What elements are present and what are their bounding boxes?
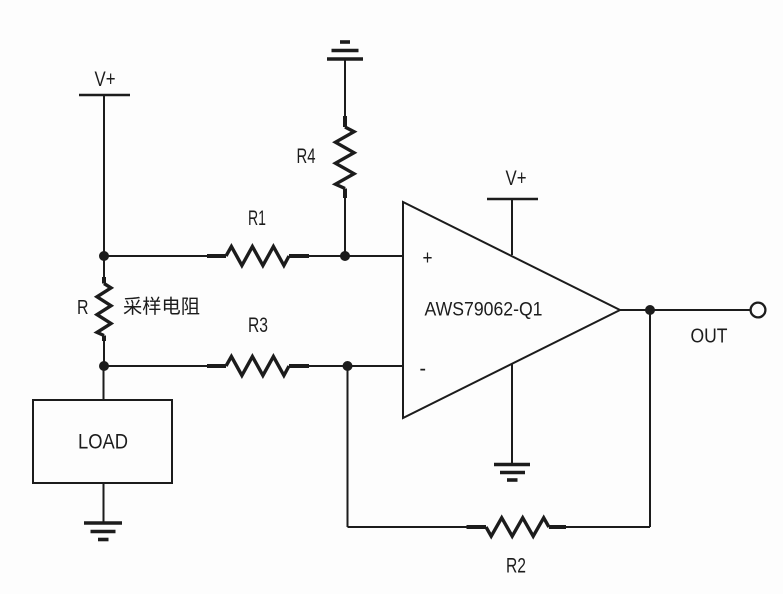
wire R2 to feedback left xyxy=(348,526,467,528)
node D (junction R3/R2/op-amp -) xyxy=(343,361,353,371)
node E (output junction) xyxy=(645,305,655,315)
wire V+ to node A xyxy=(103,95,105,256)
node B (junction R1/R4/op-amp +) xyxy=(340,251,350,261)
wire node A to R xyxy=(103,256,105,277)
svg-text:-: - xyxy=(420,356,427,381)
wire node D to op-amp - input xyxy=(348,365,404,367)
resistor R1 xyxy=(207,247,309,266)
wire R1 to node B xyxy=(309,255,345,257)
power V+ supply (op-amp) xyxy=(487,167,538,199)
svg-text:AWS79062-Q1: AWS79062-Q1 xyxy=(425,299,543,321)
svg-text:V+: V+ xyxy=(95,68,116,91)
svg-text:+: + xyxy=(423,248,433,270)
wire node B to op-amp + input xyxy=(345,255,403,257)
wire node C to R3 xyxy=(104,365,208,367)
wire node E to OUT terminal xyxy=(650,309,751,311)
resistor R2 xyxy=(467,518,567,536)
OUT terminal xyxy=(751,303,766,318)
op-amp U1 AWS79062-Q1 xyxy=(403,202,620,418)
wire node A to R1 xyxy=(104,255,208,257)
ground (op-amp) xyxy=(494,465,530,481)
svg-text:OUT: OUT xyxy=(691,326,728,348)
svg-text:R1: R1 xyxy=(248,207,266,230)
wire node E down (feedback) xyxy=(649,310,651,527)
wire op-amp bottom to ground xyxy=(511,364,513,463)
svg-text:R2: R2 xyxy=(506,555,526,578)
LOAD block xyxy=(33,400,172,483)
wire ground to R4 xyxy=(344,60,346,117)
node C (junction R/R3/LOAD) xyxy=(99,361,109,371)
wire R4 to node B xyxy=(344,198,346,256)
power V+ supply (left) xyxy=(79,68,130,95)
ground (top, R4) xyxy=(327,42,363,59)
wire LOAD to ground xyxy=(103,483,105,522)
wire feedback up to node D xyxy=(347,366,349,527)
ground (below LOAD) xyxy=(84,523,122,540)
wire R3 to node D xyxy=(309,365,348,367)
wire node C to LOAD xyxy=(103,366,105,400)
svg-text:R3: R3 xyxy=(248,314,268,337)
svg-text:V+: V+ xyxy=(506,167,527,190)
wire feedback bottom right xyxy=(566,526,650,528)
resistor R3 xyxy=(207,357,309,376)
node A (junction V+/R/R1) xyxy=(99,251,109,261)
svg-text:LOAD: LOAD xyxy=(78,430,128,454)
wire op-amp output to node E xyxy=(620,309,650,311)
svg-text:R: R xyxy=(77,297,89,319)
resistor R (sense) xyxy=(97,277,111,341)
svg-text:R4: R4 xyxy=(297,145,316,168)
resistor R4 xyxy=(336,116,355,198)
wire R to node C xyxy=(103,341,105,366)
svg-text:采样电阻: 采样电阻 xyxy=(123,296,200,318)
wire V+ to op-amp top xyxy=(511,199,513,255)
